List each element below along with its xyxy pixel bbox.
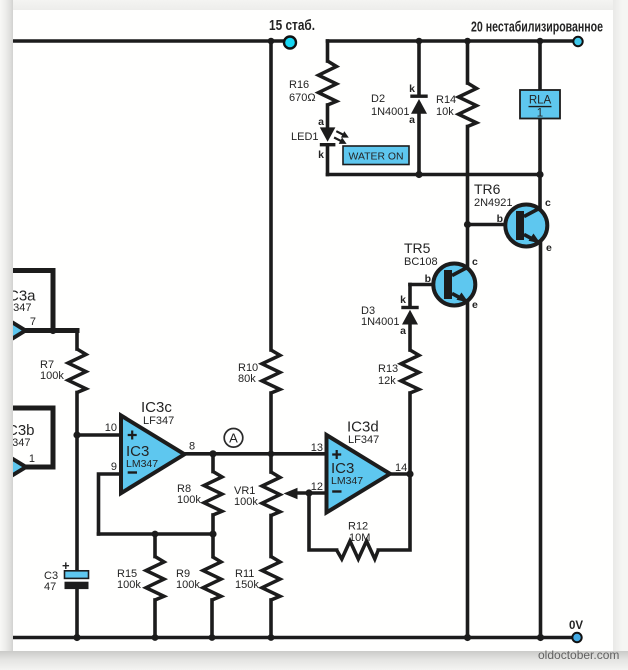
svg-text:c: c [472, 256, 478, 268]
wire RLA bottom to TR6 collector node [538, 118, 542, 208]
svg-text:12: 12 [311, 481, 323, 493]
wire R16 to LED anode [326, 105, 330, 128]
LED LED1 [320, 127, 336, 146]
wire R15 bottom [153, 600, 157, 638]
svg-text:10: 10 [105, 422, 117, 434]
svg-text:100k: 100k [177, 494, 201, 506]
wire C3 to 0V rail [75, 589, 79, 638]
wire VR1 bottom to R11 [269, 516, 273, 557]
wire R8 bottom / R9 top [211, 515, 215, 557]
svg-text:LF347: LF347 [13, 437, 31, 449]
svg-text:LED1: LED1 [291, 131, 319, 143]
LED1 light arrows [334, 131, 344, 141]
IC3d internals [332, 450, 341, 459]
wire IC3a feedback loop [13, 271, 53, 331]
resistor R13 [401, 350, 419, 393]
wire node A row: IC3c pin8 to IC3d pin13 [186, 452, 327, 456]
wire TR6 base [468, 223, 518, 227]
svg-text:2N4921: 2N4921 [474, 197, 513, 209]
svg-text:A: A [229, 431, 238, 446]
svg-text:IC3d: IC3d [347, 419, 379, 436]
svg-text:b: b [425, 273, 431, 285]
svg-text:e: e [472, 299, 478, 311]
watermark [538, 648, 618, 662]
wire R7 top [75, 331, 79, 350]
wire R16/LED column upper [326, 41, 330, 61]
svg-text:47: 47 [44, 581, 56, 593]
resistor R14 [459, 83, 477, 127]
svg-text:LF347: LF347 [143, 415, 174, 427]
svg-text:b: b [497, 213, 503, 225]
diode D2 [410, 95, 427, 114]
resistor R15 [146, 557, 164, 601]
op-amp IC3a (clipped at page edge) [0, 292, 26, 370]
svg-text:LF347: LF347 [13, 302, 32, 314]
svg-text:1N4001: 1N4001 [371, 106, 410, 118]
resistor R9 [203, 557, 221, 601]
op-amp IC3d [327, 435, 391, 513]
wire IC3b output [24, 465, 53, 470]
svg-text:LM347: LM347 [126, 458, 158, 470]
wire R8 top stub [211, 454, 215, 472]
wire TR6 emitter down to 0V [539, 244, 543, 638]
svg-text:R12: R12 [348, 521, 368, 533]
wire 15V drop to divider column [269, 41, 273, 350]
svg-text:e: e [546, 242, 552, 254]
transistor TR5 [433, 264, 475, 306]
node A circle [224, 429, 243, 448]
wire LED loop bottom horizontal [328, 173, 541, 177]
wire TR5 base horizontal [410, 283, 445, 287]
wire VR1 top stub [269, 454, 273, 472]
terminal 20V [573, 37, 582, 46]
svg-text:TR6: TR6 [474, 181, 501, 197]
svg-text:TR5: TR5 [404, 240, 431, 256]
svg-text:D2: D2 [371, 93, 385, 105]
wire D3 anode to R13 [408, 324, 412, 350]
op-amp IC3b (clipped at page edge) [0, 428, 26, 506]
svg-text:+: + [62, 558, 70, 573]
wire IC3b feedback loop [13, 408, 53, 467]
svg-text:a: a [409, 114, 415, 126]
svg-text:8: 8 [189, 441, 195, 453]
wire feedback row to R8/R9 node [99, 532, 214, 536]
wire R14 bottom to TR5 collector [466, 127, 470, 267]
svg-text:k: k [400, 294, 406, 306]
wire 15V rail top-left [13, 39, 284, 43]
svg-text:7: 7 [30, 316, 36, 328]
wire 20V rail top-right [328, 39, 575, 43]
svg-text:WATER ON: WATER ON [349, 151, 404, 163]
svg-text:LM347: LM347 [331, 475, 363, 487]
svg-text:R13: R13 [378, 363, 398, 375]
svg-text:k: k [318, 149, 324, 161]
transistor TR6 [505, 205, 547, 247]
op-amp IC3c [121, 416, 185, 494]
wire D2 top [417, 41, 421, 95]
svg-text:0V: 0V [569, 620, 583, 632]
svg-text:LF347: LF347 [348, 434, 379, 446]
wire IC3c pin9 input + feedback [99, 474, 122, 534]
svg-text:a: a [400, 325, 406, 337]
wire LED cathode down [326, 146, 330, 175]
resistor R10 [262, 350, 280, 393]
terminal 0V [572, 633, 581, 642]
svg-text:10M: 10M [349, 532, 370, 544]
label box WATER ON [343, 146, 409, 165]
diode D3 [401, 306, 418, 325]
svg-text:a: a [318, 116, 324, 128]
svg-text:R14: R14 [436, 94, 456, 106]
wire TR5 emitter down to 0V [466, 303, 470, 638]
wire R15 top stub [153, 534, 157, 557]
svg-text:80k: 80k [238, 373, 256, 385]
wire IC3d pin12 input from wiper [296, 491, 327, 495]
wire IC3a output [24, 328, 77, 333]
wire pin10 node down to C3 [75, 435, 79, 572]
capacitor C3 [65, 571, 89, 589]
wire D2 bottom [417, 114, 421, 175]
wire IC3c pin10 input [77, 433, 121, 437]
svg-text:c: c [545, 197, 551, 209]
wire TR5 base drop to D3 [408, 285, 412, 307]
wire RLA top [538, 41, 542, 90]
svg-text:1: 1 [29, 453, 35, 465]
svg-text:1N4001: 1N4001 [361, 316, 400, 328]
relay coil RLA/1 box [520, 90, 560, 120]
svg-text:100k: 100k [234, 496, 258, 508]
wire R14 top [466, 41, 470, 83]
svg-text:RLA: RLA [529, 95, 552, 107]
svg-text:20 нестабилизированное: 20 нестабилизированное [471, 19, 603, 36]
wire R11 bottom [269, 600, 273, 638]
svg-text:670Ω: 670Ω [289, 92, 316, 104]
svg-text:10k: 10k [436, 106, 454, 118]
svg-text:13: 13 [311, 442, 323, 454]
wire IC3d output pin14 [388, 472, 410, 476]
svg-text:k: k [409, 83, 415, 95]
potentiometer VR1 [262, 472, 280, 516]
terminal 15V [284, 37, 296, 49]
svg-text:12k: 12k [378, 375, 396, 387]
svg-text:100k: 100k [117, 579, 141, 591]
svg-text:R16: R16 [289, 79, 309, 91]
svg-text:100k: 100k [40, 370, 64, 382]
resistor R12 [337, 541, 379, 559]
wire R10 bottom to node A row [269, 393, 273, 454]
wire R7 bottom to pin10 node [75, 393, 79, 436]
wire pin12 feedback drop [309, 493, 337, 550]
svg-text:150k: 150k [235, 579, 259, 591]
svg-text:9: 9 [111, 461, 117, 473]
resistor R8 [204, 472, 222, 516]
svg-text:1: 1 [537, 108, 543, 120]
svg-text:IC3c: IC3c [141, 399, 172, 416]
wire 0V rail bottom [13, 636, 572, 640]
svg-text:15 стаб.: 15 стаб. [269, 17, 315, 34]
wire R12 right to pin14 node [378, 474, 410, 550]
wire R9 bottom [210, 600, 214, 638]
svg-text:BC108: BC108 [404, 256, 438, 268]
resistor R11 [262, 557, 280, 601]
IC3c internals [128, 431, 137, 440]
VR1 wiper arrow [284, 488, 298, 499]
svg-text:100k: 100k [176, 579, 200, 591]
wire R13 to pin14 node [408, 393, 412, 474]
resistor R16 [319, 61, 337, 105]
svg-text:14: 14 [395, 462, 407, 474]
resistor R7 [68, 349, 86, 393]
